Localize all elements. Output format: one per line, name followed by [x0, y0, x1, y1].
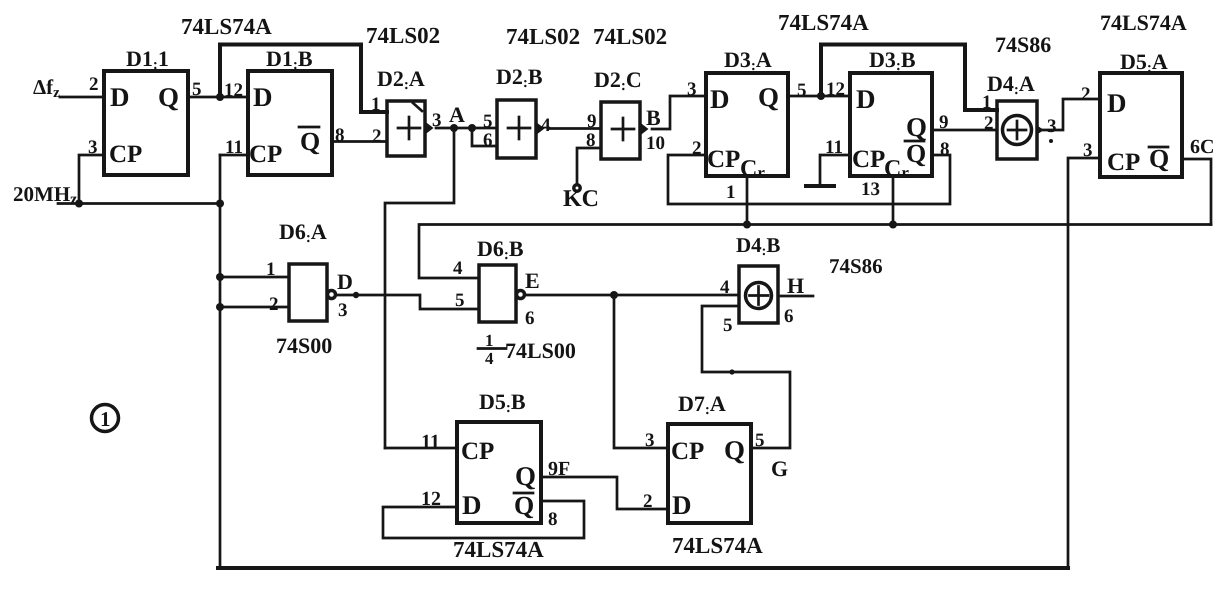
pin 3 D2:A: [432, 110, 442, 131]
pin 11 D3:B: [825, 137, 843, 158]
svg-text:9: 9: [587, 111, 597, 132]
svg-text:D5:B: D5:B: [479, 389, 526, 416]
svg-text:9: 9: [939, 112, 949, 133]
value label 74LS74A for D3: [778, 10, 869, 35]
svg-text:CP: CP: [1107, 149, 1140, 176]
value label 74LS74A for D1: [181, 14, 272, 39]
value label 74S86 for D4:A: [995, 32, 1051, 57]
wire D3:B Q pin 9 to D4:A pin 2: [932, 129, 997, 132]
pin 2 D2:A: [372, 126, 382, 147]
svg-text:D: D: [253, 82, 273, 112]
pin 13 D3:B Cr: [861, 179, 880, 200]
svg-text:Q: Q: [514, 491, 534, 520]
wire D5:B CP pin 11: [385, 447, 457, 450]
wire D5:A CP pin 3 clock from bottom bus: [1068, 158, 1100, 568]
gate D6:B NAND: [477, 236, 525, 322]
svg-text:6: 6: [483, 130, 493, 151]
net label E: [525, 268, 540, 293]
svg-text:4: 4: [720, 277, 730, 298]
wire D6:A input pin 2: [220, 306, 289, 309]
net label Delta-fz input: [33, 75, 60, 101]
svg-text:3: 3: [88, 137, 98, 158]
svg-text:8: 8: [548, 509, 558, 530]
svg-text:1: 1: [266, 259, 276, 280]
svg-text:D1:1: D1:1: [126, 46, 169, 73]
svg-text:D4:A: D4:A: [987, 71, 1035, 98]
pin 2 D5:A: [1081, 84, 1091, 105]
pin 6 D6:B: [525, 308, 535, 329]
svg-text:Cr: Cr: [740, 156, 765, 182]
svg-text:B: B: [646, 105, 661, 130]
net label 9F: [548, 458, 570, 480]
svg-text:3: 3: [1047, 116, 1057, 137]
flip-flop D1:B: [248, 46, 332, 175]
svg-text:8: 8: [940, 139, 950, 160]
svg-text:8: 8: [586, 130, 596, 151]
wire D5:A Qbar 6C down to reset bus: [1182, 159, 1211, 225]
pin 8 D5:B: [548, 509, 558, 530]
value label 74S86 for D4:B: [829, 254, 883, 278]
svg-text:D: D: [1107, 88, 1127, 118]
svg-text:74LS74A: 74LS74A: [672, 533, 763, 558]
wire bottom clock bus y=568: [218, 566, 1068, 570]
flip-flop D5:A: [1100, 49, 1182, 177]
svg-text:74S00: 74S00: [276, 333, 332, 358]
net label H: [787, 273, 804, 298]
value label 74LS02 for D2:B: [506, 24, 580, 49]
svg-text:D1:B: D1:B: [266, 46, 313, 73]
pin 5 D2:B: [483, 111, 493, 132]
svg-text:2: 2: [643, 491, 653, 512]
net label 6C: [1190, 136, 1214, 158]
svg-text:Q: Q: [906, 139, 926, 168]
value label 74LS74A under D7:A: [672, 533, 763, 558]
wire D1:1 Q pin 5 to D1:B D pin 12: [188, 96, 248, 99]
wire D3:B CP pin 11 to ground: [820, 155, 850, 184]
svg-text:CP: CP: [707, 146, 740, 173]
pin 2 D3:A: [692, 138, 702, 159]
flip-flop D3:B: [850, 47, 932, 182]
value label 74LS02 for D2:C: [593, 24, 667, 49]
svg-text:2: 2: [692, 138, 702, 159]
wire node up and over to D2:A pin 1: [220, 45, 387, 113]
net label D: [337, 269, 353, 294]
pin 5 D1:1: [192, 79, 202, 100]
node junction on 20MHz line: [75, 200, 83, 208]
net label G: [771, 456, 788, 481]
pin 9 D2:C: [587, 111, 597, 132]
svg-text:D: D: [462, 490, 482, 520]
svg-text:5: 5: [797, 80, 807, 101]
svg-text:4: 4: [485, 349, 494, 368]
pin 2 D4:A: [984, 113, 994, 134]
node junction Cr13 on reset bus: [889, 221, 897, 229]
node junction Cr1 on reset bus: [743, 221, 751, 229]
pin 6 D4:B: [784, 306, 794, 327]
svg-text:74LS74A: 74LS74A: [1100, 10, 1187, 35]
wire D2:B output to D2:C pin 9: [548, 127, 601, 130]
node junction pin2 tap: [216, 303, 224, 311]
pin 3 D4:A: [1047, 116, 1057, 137]
speck: [1049, 139, 1053, 143]
pin 10 D2:C: [646, 133, 665, 154]
wire D5:B Q 9F to D7:A D pin 2: [541, 477, 668, 509]
wire D2:C pin 8 down to KC: [577, 148, 601, 185]
wire D3:A CP pin 2 feedback from D3:B Qbar pin 8: [668, 155, 950, 204]
svg-text:Q: Q: [906, 112, 927, 142]
pin 1 D6:A: [266, 259, 276, 280]
svg-text:9F: 9F: [548, 458, 570, 480]
svg-text:74LS00: 74LS00: [505, 338, 576, 363]
pin 5 D3:A: [797, 80, 807, 101]
svg-text:11: 11: [225, 137, 243, 158]
svg-text:6: 6: [784, 306, 794, 327]
svg-text:5: 5: [723, 315, 733, 336]
svg-text:Δfz: Δfz: [33, 75, 60, 101]
svg-text:CP: CP: [852, 146, 885, 173]
pin 2 D7:A: [643, 491, 653, 512]
svg-text:CP: CP: [249, 141, 282, 168]
pin 11 D5:B: [421, 431, 440, 453]
svg-text:D2:B: D2:B: [496, 64, 543, 91]
svg-text:74LS02: 74LS02: [366, 23, 440, 48]
svg-text:Q: Q: [300, 127, 320, 156]
svg-text:Q: Q: [158, 82, 179, 112]
pin 11 D1:B: [225, 137, 243, 158]
pin 5 D6:B: [455, 290, 465, 311]
svg-text:D: D: [337, 269, 353, 294]
node junction A loop to pin 6: [468, 124, 476, 132]
pin 12 D5:B: [421, 488, 441, 510]
gate D4:B XOR: [739, 266, 778, 323]
svg-text:2: 2: [269, 294, 279, 315]
node junction Q5/12 D3: [817, 92, 825, 100]
pin 3 D7:A: [645, 430, 655, 451]
wire node up and over to D4:A pin 1: [821, 45, 997, 111]
net label KC: [563, 186, 599, 212]
pin 1 D3:A Cr: [726, 182, 736, 203]
pin 12 D1:B: [224, 80, 243, 101]
pin 3 D5:A: [1083, 140, 1093, 161]
wire reset bus y=225: [419, 225, 1211, 279]
pin 4 D6:B: [453, 258, 463, 279]
svg-text:4: 4: [453, 258, 463, 279]
svg-text:G: G: [771, 456, 788, 481]
svg-text:12: 12: [224, 80, 243, 101]
pin 5 D7:A: [755, 430, 765, 451]
pin 6 D2:B: [483, 130, 493, 151]
pin 1 D2:A: [371, 94, 381, 115]
figure number circled 1: [92, 405, 119, 432]
svg-text:1: 1: [371, 94, 381, 115]
svg-text:D2:A: D2:A: [377, 66, 425, 93]
svg-text:CP: CP: [109, 141, 142, 168]
svg-text:6C: 6C: [1190, 136, 1214, 158]
svg-text:D3:A: D3:A: [724, 47, 772, 74]
svg-text:74LS02: 74LS02: [593, 24, 667, 49]
ground symbol: [806, 184, 834, 188]
svg-text:74LS74A: 74LS74A: [453, 537, 544, 562]
node junction pin1 tap: [216, 273, 224, 281]
wire D1:1 CP pin 3: [79, 155, 104, 204]
svg-text:11: 11: [421, 431, 440, 453]
svg-text:8: 8: [335, 125, 345, 146]
svg-text:1: 1: [726, 182, 736, 203]
pin 4 D4:B: [720, 277, 730, 298]
pin 3 D6:A: [338, 300, 348, 321]
node junction 20MHz at x=220: [216, 200, 224, 208]
wire D3:A Q pin 5 to D3:B D pin 12: [788, 95, 850, 98]
blob on G loop: [729, 369, 734, 374]
wire E junction down to D7:A CP pin 3: [614, 295, 668, 448]
svg-text:2: 2: [984, 113, 994, 134]
wire E line to D4:B pin 4: [525, 294, 739, 297]
pin 2 D6:A: [269, 294, 279, 315]
gate D2:A NOR: [377, 66, 434, 156]
wire node A down-jog-down to D5:B pin 11: [385, 128, 454, 448]
wire D2:A output node A to D2:B pin 5: [436, 127, 497, 130]
pin 3 D3:A: [687, 79, 697, 100]
node junction E line: [610, 291, 618, 299]
pin 8 D2:C: [586, 130, 596, 151]
svg-text:74LS02: 74LS02: [506, 24, 580, 49]
net label 20MHz input: [13, 182, 77, 208]
svg-text:D2:C: D2:C: [594, 67, 642, 94]
svg-text:3: 3: [1083, 140, 1093, 161]
node junction D: [353, 292, 359, 298]
svg-text:D: D: [710, 84, 730, 114]
svg-text:5: 5: [192, 79, 202, 100]
svg-text:D7:A: D7:A: [678, 391, 726, 418]
value label 1/4 74LS00: [478, 331, 576, 368]
svg-text:5: 5: [483, 111, 493, 132]
svg-text:2: 2: [372, 126, 382, 147]
wire D4:B output H: [778, 295, 813, 298]
net label A: [449, 102, 465, 127]
pin 2 D1:1: [89, 74, 99, 95]
svg-text:74LS74A: 74LS74A: [181, 14, 272, 39]
svg-text:12: 12: [826, 79, 845, 100]
wire main left vertical x=220: [219, 155, 222, 568]
wire 20MHz line: [58, 202, 220, 205]
svg-text:13: 13: [861, 179, 880, 200]
svg-text:5: 5: [755, 430, 765, 451]
svg-text:74LS74A: 74LS74A: [778, 10, 869, 35]
node junction Q5/12: [216, 93, 224, 101]
svg-text:5: 5: [455, 290, 465, 311]
svg-text:D5:A: D5:A: [1120, 49, 1168, 76]
flip-flop D7:A: [668, 424, 751, 523]
svg-text:3: 3: [338, 300, 348, 321]
svg-text:Q: Q: [724, 435, 745, 465]
pin 12 D3:B: [826, 79, 845, 100]
svg-text:D: D: [672, 490, 692, 520]
node junction A: [450, 124, 458, 132]
wire D2:C output B to D3:A pin 3: [652, 96, 706, 129]
value label 74LS74A for D5:A: [1100, 10, 1187, 35]
wire D5:B Qbar pin 8 feedback loop to D pin 12: [383, 501, 584, 538]
wire D4:A pin 3 output to D5:A D pin 2: [1037, 99, 1100, 130]
net label D7:A: [678, 391, 726, 418]
svg-text:D: D: [856, 84, 876, 114]
svg-text:D6:A: D6:A: [279, 219, 327, 246]
svg-text:2: 2: [1081, 84, 1091, 105]
svg-text:CP: CP: [461, 438, 494, 465]
net label D4:B: [736, 233, 780, 259]
pin 9 D3:B: [939, 112, 949, 133]
wire Delta-fz to D1:1 pin 2: [60, 96, 104, 99]
svg-text:3: 3: [687, 79, 697, 100]
svg-text:E: E: [525, 268, 540, 293]
pin 8 D3:B: [940, 139, 950, 160]
wire D7:A Q pin 5 G loop up to D4:B pin 5: [702, 306, 790, 448]
svg-text:3: 3: [645, 430, 655, 451]
gate D2:C NOR: [594, 67, 649, 159]
wire D node to D6:B pin 5: [336, 295, 479, 309]
pin 8 D1:B: [335, 125, 345, 146]
svg-text:D3:B: D3:B: [869, 47, 916, 74]
gate D4:A XOR: [987, 71, 1044, 159]
svg-text:10: 10: [646, 133, 665, 154]
svg-text:KC: KC: [563, 186, 599, 212]
svg-text:4: 4: [541, 115, 551, 136]
gate D6:A NAND: [279, 219, 336, 321]
value label 74LS02 for D2:A: [366, 23, 440, 48]
svg-text:H: H: [787, 273, 804, 298]
svg-text:D6:B: D6:B: [477, 236, 524, 263]
flip-flop D1:1: [104, 46, 188, 175]
gate D2:B NOR: [496, 64, 545, 158]
svg-text:74S86: 74S86: [829, 254, 883, 278]
svg-text:CP: CP: [671, 438, 704, 465]
svg-text:6: 6: [525, 308, 535, 329]
svg-text:D4:B: D4:B: [736, 233, 780, 259]
flip-flop D3:A: [706, 47, 788, 182]
svg-text:12: 12: [421, 488, 441, 510]
wire D1:B CP pin 11: [220, 154, 248, 157]
wire D3:B Cr pin 13 down to reset bus: [892, 176, 895, 225]
svg-text:A: A: [449, 102, 465, 127]
pin 3 D1:1: [88, 137, 98, 158]
terminal circle KC: [574, 185, 580, 191]
value label 74LS74A under D5:B: [453, 537, 544, 562]
pin 1 D4:A: [982, 92, 992, 113]
svg-text:2: 2: [89, 74, 99, 95]
flip-flop D5:B: [457, 389, 541, 523]
svg-text:Q: Q: [515, 461, 536, 491]
wire D3:A Cr pin 1 down to reset bus: [746, 176, 749, 225]
value label 74S00: [276, 333, 332, 358]
svg-text:D: D: [110, 82, 130, 112]
wire D6:A input pin 1: [220, 276, 289, 279]
svg-text:1: 1: [100, 407, 111, 431]
svg-text:11: 11: [825, 137, 843, 158]
svg-text:74S86: 74S86: [995, 32, 1051, 57]
pin 4 D2:B output: [541, 115, 551, 136]
wire D1:B Qbar pin 8 to D2:A pin 2: [332, 140, 387, 143]
svg-text:Q: Q: [758, 82, 779, 112]
pin 5 D4:B: [723, 315, 733, 336]
net label B: [646, 105, 661, 130]
wire loop A to D2:B pin 6: [472, 128, 497, 146]
